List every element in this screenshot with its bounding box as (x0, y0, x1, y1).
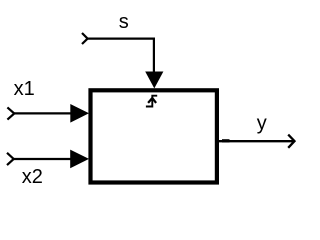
svg-text:y: y (257, 113, 267, 135)
svg-text:x1: x1 (14, 78, 35, 100)
svg-text:s: s (119, 11, 129, 33)
svg-text:x2: x2 (22, 166, 43, 188)
